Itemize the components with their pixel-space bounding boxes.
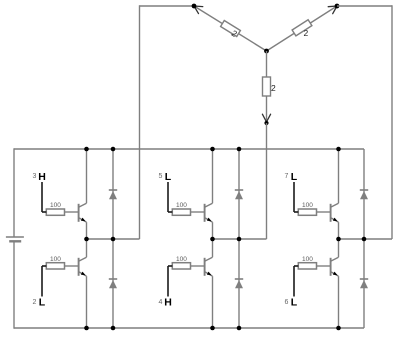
wire phase A transistor column lower: [86, 276, 88, 328]
battery BT1 positive plate (long): [6, 236, 24, 238]
junction dot bottom rail: [210, 326, 215, 331]
wire phase B transistor column middle: [212, 222, 214, 257]
wire diagonal node A to star center: [194, 6, 267, 51]
diode D1 (high side freewheel): [109, 189, 117, 191]
svg-text:4: 4: [159, 299, 163, 306]
wire left edge top (rail to battery +): [13, 148, 15, 237]
junction dot bottom rail: [336, 326, 341, 331]
junction dot phase rail: [210, 237, 215, 242]
svg-text:2: 2: [33, 299, 37, 306]
battery BT1 negative plate (short): [9, 240, 21, 242]
svg-text:100: 100: [302, 256, 313, 263]
svg-text:H: H: [38, 171, 46, 183]
wire signal stub 4H (bottom): [167, 266, 169, 297]
wire left phase drop (corner down to phase rail A): [139, 5, 141, 239]
wire top-left horizontal (node A to corner): [140, 5, 195, 7]
wire phase C transistor column middle: [338, 222, 340, 257]
wire left edge bottom (battery - to rail): [13, 241, 15, 328]
svg-text:100: 100: [302, 202, 313, 209]
svg-text:5: 5: [159, 173, 163, 180]
arrow into node B (pointing down): [262, 114, 266, 122]
wire bottom DC- rail: [14, 327, 364, 329]
wire R8 down to node B: [266, 96, 268, 123]
svg-text:2: 2: [271, 83, 276, 93]
wire top-right horizontal (node C to corner): [337, 5, 392, 7]
node B junction dot: [264, 121, 268, 125]
wire signal stub 6L (bottom): [293, 266, 295, 297]
svg-text:L: L: [291, 171, 298, 183]
wire phase B diode column: [238, 149, 240, 328]
wire signal stub 7L (top): [293, 182, 295, 212]
diode D4 (low side freewheel): [235, 278, 243, 280]
resistor R8 value 2 (phase B, vertical): [263, 77, 271, 96]
arrow into node C: [333, 6, 337, 14]
wire diagonal star center to node C: [267, 6, 338, 51]
junction dot bottom rail: [84, 326, 89, 331]
resistor R7 value 2 (phase A, rotated): [221, 21, 241, 37]
svg-text:100: 100: [176, 202, 187, 209]
junction dot top rail: [111, 147, 116, 152]
svg-text:6: 6: [285, 299, 289, 306]
junction dot phase rail: [111, 237, 116, 242]
junction dot top rail: [237, 147, 242, 152]
junction dot phase rail: [362, 237, 367, 242]
svg-text:2: 2: [304, 28, 309, 38]
diode D3 (high side freewheel): [235, 189, 243, 191]
wire phase C transistor column lower: [338, 276, 340, 328]
svg-text:100: 100: [50, 256, 61, 263]
junction dot top rail: [210, 147, 215, 152]
wire phase C transistor column upper: [338, 149, 340, 203]
wire star center down to R8: [266, 51, 268, 78]
wire right phase drop (corner down to phase rail C): [391, 5, 393, 239]
resistor R5 value 100 (high side base): [298, 209, 316, 215]
transistor Q1 (high side NPN): [78, 204, 80, 222]
wire phase B transistor column upper: [212, 149, 214, 203]
wire middle phase drop (node B down to phase rail B): [266, 123, 268, 239]
transistor Q3 (high side NPN): [204, 204, 206, 222]
svg-text:L: L: [39, 297, 46, 309]
wire signal stub 2L (bottom): [41, 266, 43, 297]
svg-text:3: 3: [33, 173, 37, 180]
junction dot phase rail: [237, 237, 242, 242]
junction dot bottom rail: [111, 326, 116, 331]
wire phase A transistor column middle: [86, 222, 88, 257]
diode D5 (high side freewheel): [360, 189, 368, 191]
transistor Q4 (low side NPN): [204, 258, 206, 276]
node C junction dot: [335, 4, 340, 9]
wire phase B transistor column lower: [212, 276, 214, 328]
transistor Q6 (low side NPN): [330, 258, 332, 276]
junction dot top rail: [336, 147, 341, 152]
svg-text:H: H: [164, 297, 172, 309]
wire phase C diode column: [363, 149, 365, 328]
junction dot phase rail: [84, 237, 89, 242]
svg-text:100: 100: [50, 202, 61, 209]
wire phase C output rail: [339, 238, 393, 240]
diode D6 (low side freewheel): [360, 278, 368, 280]
wire signal stub 5L (top): [167, 182, 169, 212]
resistor R1 value 100 (high side base): [46, 209, 64, 215]
junction dot top rail: [84, 147, 89, 152]
resistor R2 value 100 (low side base): [46, 263, 64, 269]
svg-text:L: L: [291, 297, 298, 309]
wire phase A diode column: [112, 149, 114, 328]
junction dot bottom rail: [237, 326, 242, 331]
wire signal stub 3H (top): [41, 182, 43, 212]
arrow into node A: [194, 5, 203, 8]
wire phase B output rail: [213, 238, 267, 240]
wire phase A output rail: [87, 238, 140, 240]
transistor Q5 (high side NPN): [330, 204, 332, 222]
node A junction dot: [192, 4, 197, 9]
diode D2 (low side freewheel): [109, 278, 117, 280]
resistor R9 value 2 (phase C, rotated): [292, 20, 312, 36]
wire top DC+ rail: [14, 148, 364, 150]
wire phase A transistor column upper: [86, 149, 88, 203]
svg-text:L: L: [165, 171, 172, 183]
resistor R4 value 100 (low side base): [172, 263, 190, 269]
resistor R6 value 100 (low side base): [298, 263, 316, 269]
resistor R3 value 100 (high side base): [172, 209, 190, 215]
svg-text:7: 7: [285, 173, 289, 180]
junction dot phase rail: [336, 237, 341, 242]
star center node dot: [264, 49, 269, 54]
transistor Q2 (low side NPN): [78, 258, 80, 276]
svg-text:100: 100: [176, 256, 187, 263]
